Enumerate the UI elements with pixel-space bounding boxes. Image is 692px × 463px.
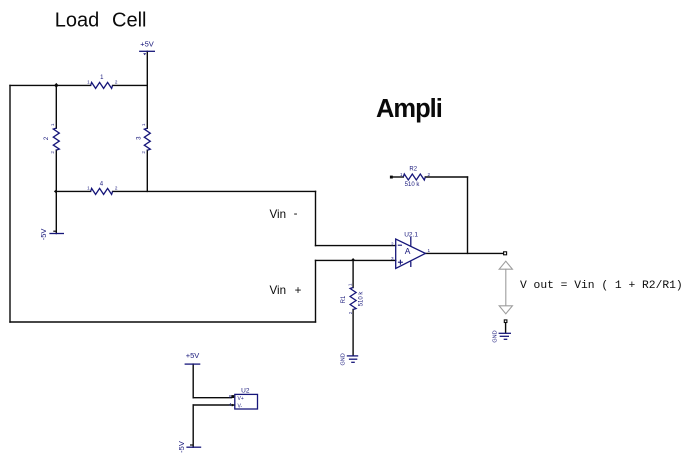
svg-text:1: 1 bbox=[348, 283, 353, 286]
svg-text:V-: V- bbox=[238, 404, 243, 410]
svg-text:-: - bbox=[294, 207, 298, 220]
svg-text:2: 2 bbox=[115, 79, 118, 84]
svg-text:U2.1: U2.1 bbox=[404, 232, 418, 239]
svg-text:2: 2 bbox=[50, 151, 55, 154]
svg-text:GND: GND bbox=[493, 330, 499, 342]
svg-text:3: 3 bbox=[391, 256, 394, 261]
svg-text:1: 1 bbox=[50, 123, 55, 126]
svg-text:+5V: +5V bbox=[140, 39, 154, 48]
svg-text:+5V: +5V bbox=[186, 351, 200, 360]
svg-text:1: 1 bbox=[141, 123, 146, 126]
svg-text:4: 4 bbox=[229, 402, 232, 407]
svg-text:2: 2 bbox=[348, 311, 353, 314]
svg-text:1: 1 bbox=[400, 172, 403, 177]
svg-text:Vin: Vin bbox=[270, 284, 287, 297]
svg-text:Vin: Vin bbox=[270, 208, 287, 221]
svg-text:R2: R2 bbox=[409, 166, 417, 172]
svg-text:2: 2 bbox=[428, 172, 431, 177]
svg-text:8: 8 bbox=[229, 394, 232, 399]
svg-text:510 k: 510 k bbox=[405, 182, 421, 188]
svg-text:Ampli: Ampli bbox=[376, 95, 442, 123]
svg-text:-5V: -5V bbox=[177, 441, 186, 453]
svg-text:510 k: 510 k bbox=[358, 291, 364, 307]
svg-text:A: A bbox=[405, 246, 411, 256]
svg-text:2: 2 bbox=[115, 185, 118, 190]
svg-text:-5V: -5V bbox=[39, 229, 48, 241]
svg-text:V+: V+ bbox=[238, 396, 244, 402]
svg-text:1: 1 bbox=[87, 185, 90, 190]
svg-text:Cell: Cell bbox=[112, 10, 146, 32]
svg-text:U2: U2 bbox=[241, 387, 250, 394]
svg-text:2: 2 bbox=[391, 241, 394, 246]
svg-text:V out = Vin ( 1 + R2/R1): V out = Vin ( 1 + R2/R1) bbox=[520, 280, 683, 292]
svg-text:R1: R1 bbox=[341, 295, 347, 303]
svg-text:1: 1 bbox=[87, 79, 90, 84]
svg-text:+: + bbox=[295, 284, 302, 297]
svg-text:2: 2 bbox=[141, 151, 146, 154]
svg-text:Load: Load bbox=[55, 10, 100, 32]
svg-text:GND: GND bbox=[340, 353, 346, 365]
svg-text:1: 1 bbox=[428, 248, 431, 253]
